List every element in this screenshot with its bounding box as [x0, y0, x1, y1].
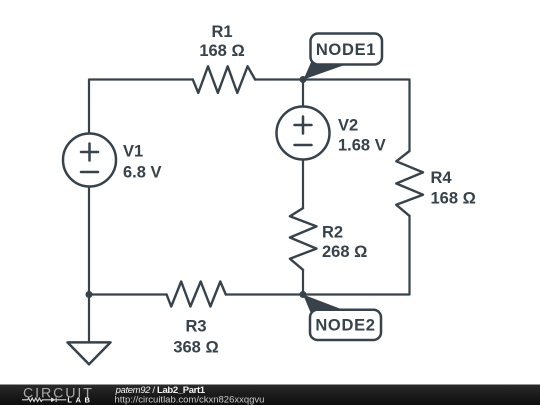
- wire node1 to V2 top: [302, 80, 304, 107]
- wire V2 bottom to R2: [302, 160, 304, 209]
- node NODE2 callout: [303, 295, 381, 341]
- label R2 value: [322, 224, 367, 261]
- svg-text:R4: R4: [431, 169, 453, 187]
- wire junction to ground: [88, 295, 90, 343]
- bottom-left junction dot: [86, 291, 93, 298]
- svg-text:NODE2: NODE2: [315, 317, 375, 335]
- svg-text:V1: V1: [123, 142, 143, 160]
- ground: [68, 342, 111, 364]
- footer watermark bar: [0, 385, 540, 405]
- svg-text:6.8 V: 6.8 V: [123, 164, 162, 182]
- wire top-left corner to R1: [89, 80, 193, 134]
- svg-text:168 Ω: 168 Ω: [199, 42, 244, 60]
- voltage source V1: [63, 134, 116, 187]
- label V2 value: [338, 116, 386, 154]
- node2 junction dot: [300, 291, 307, 298]
- node NODE1 callout: [304, 34, 383, 80]
- wire right side bottom (R4 to corner to node2): [303, 216, 410, 295]
- svg-text:V2: V2: [338, 116, 358, 134]
- wire R2 to node2: [302, 270, 304, 295]
- wire R1 to node1 to top-right corner: [255, 78, 409, 80]
- wire right side top (corner to R4): [408, 80, 410, 152]
- voltage source V2: [277, 107, 330, 160]
- svg-text:R2: R2: [322, 224, 343, 242]
- svg-text:NODE1: NODE1: [316, 41, 376, 59]
- label V1 value: [123, 142, 162, 181]
- svg-text:368 Ω: 368 Ω: [173, 339, 218, 357]
- svg-text:268 Ω: 268 Ω: [322, 243, 367, 261]
- resistor R4: [396, 151, 423, 216]
- label R4 value: [431, 169, 476, 208]
- resistor R1: [193, 66, 255, 93]
- wire V1 bottom to bottom-left junction: [88, 187, 90, 295]
- wire R3 to bottom-left junction: [89, 293, 167, 295]
- resistor R3: [167, 282, 226, 307]
- svg-text:LAB: LAB: [67, 395, 93, 404]
- svg-text:168 Ω: 168 Ω: [431, 190, 476, 208]
- label R3 value: [173, 318, 218, 357]
- svg-text:http://circuitlab.com/ckxn826x: http://circuitlab.com/ckxn826xxqgvu: [115, 395, 265, 405]
- svg-text:1.68 V: 1.68 V: [338, 137, 386, 155]
- wire node2 to R3: [226, 293, 303, 295]
- resistor R2: [290, 208, 317, 270]
- label R1 value: [199, 23, 244, 60]
- node1 junction dot: [300, 76, 307, 83]
- svg-text:R3: R3: [185, 318, 206, 336]
- logo mini circuit: [22, 398, 66, 403]
- svg-text:R1: R1: [211, 23, 232, 41]
